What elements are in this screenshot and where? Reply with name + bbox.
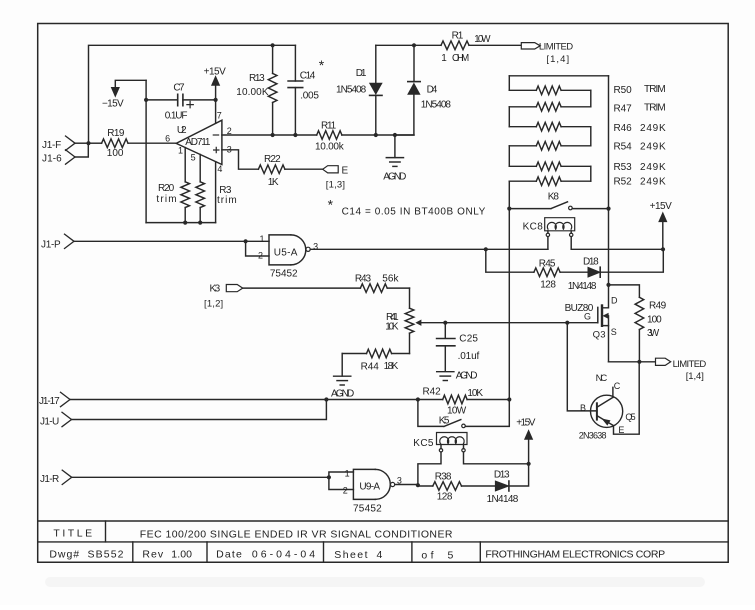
svg-text:D1: D1 [356,68,367,79]
svg-text:10W: 10W [474,34,491,45]
wire J1-F [75,142,89,144]
svg-text:128: 128 [540,280,556,291]
power +15V KC8 [650,201,673,249]
wire -15V column [145,80,147,222]
svg-text:D18: D18 [583,256,599,267]
svg-text:[1,4]: [1,4] [686,371,705,382]
capacitor C25 [437,323,480,372]
node R13 top [271,43,275,47]
svg-text:10.00k: 10.00k [315,142,345,153]
pin 1 label [178,145,183,155]
transistor Q3 BUZ80 [565,285,618,362]
svg-text:LIMITED: LIMITED [673,359,707,370]
node U9 input [327,475,331,479]
svg-text:S: S [611,327,617,337]
wire KC5 left to U9 output [418,452,441,485]
connector J1-F [42,136,75,151]
svg-text:128: 128 [437,492,453,503]
asterisk C14 [319,57,325,73]
resistor R22 [258,154,322,188]
connector J1-17 [39,392,70,407]
resistor R53 [509,162,666,173]
svg-text:U9-A: U9-A [359,481,380,492]
svg-text:249K: 249K [640,162,666,173]
svg-text:5: 5 [448,549,454,561]
node U9 output [416,483,420,487]
svg-text:0.1UF: 0.1UF [165,111,188,122]
wire ladder right brackets [590,90,592,181]
wire trim bottom rail [146,222,216,224]
svg-text:AGND: AGND [331,389,355,400]
svg-text:1N5408: 1N5408 [421,100,452,111]
pin 3 label [227,144,232,154]
svg-text:R45: R45 [539,258,556,269]
resistor R11 [315,121,414,153]
node K5 branch [416,397,420,401]
diode D13 [487,464,529,505]
note C14 text [342,207,486,218]
node Q5 base tap [565,321,569,325]
svg-text:+15V: +15V [204,67,227,78]
svg-text:AD711: AD711 [185,137,211,148]
wire K3 to R43 [243,287,361,289]
svg-text:J1-6: J1-6 [42,153,62,164]
title block divider Dwg [132,542,134,562]
svg-text:KC5: KC5 [413,438,434,449]
svg-text:2N3638: 2N3638 [579,430,607,440]
title text of [421,549,453,561]
title text Rev [142,548,192,560]
svg-text:D13: D13 [494,470,510,481]
connector J1-P [41,234,74,250]
svg-text:1: 1 [260,234,265,244]
title text Date [216,548,315,560]
svg-text:Q5: Q5 [625,412,636,422]
svg-text:C14: C14 [300,71,316,82]
svg-text:4: 4 [377,549,383,561]
resistor R13 [236,45,277,135]
svg-text:.005: .005 [300,90,319,101]
wire ladder top bus [509,75,608,77]
flag E [323,165,349,190]
pin 7 label [217,111,222,121]
svg-text:TITLE: TITLE [53,528,92,540]
wire KC8 right bus [571,248,663,250]
title block divider Date [323,542,325,562]
svg-text:Date: Date [216,548,242,560]
resistor R44 [342,349,409,373]
node R42 right [507,397,511,401]
title text Dwg [49,549,123,561]
wire source row [609,361,656,363]
svg-text:R43: R43 [355,274,372,285]
resistor R52 [509,176,666,187]
flag LIMITED lower [656,358,707,382]
diode D4 [395,45,452,135]
wire pin7 column [215,85,217,123]
wire pin1 column [184,148,186,182]
svg-text:R47: R47 [614,103,633,114]
wire left rail down [508,209,510,400]
node D4 top [412,43,416,47]
svg-text:C7: C7 [173,83,185,94]
svg-text:E: E [342,165,349,176]
wire top rail right [376,44,441,46]
ground AGND C25 [437,371,478,382]
wire J1-17 row [70,399,443,401]
svg-text:+15V: +15V [650,201,673,212]
svg-text:K3: K3 [210,283,221,294]
svg-text:75452: 75452 [270,269,298,280]
wire pin5 column [199,155,201,182]
svg-text:C: C [614,381,621,391]
svg-text:1: 1 [178,145,183,155]
node R49 bottom [637,360,641,364]
svg-text:6: 6 [165,133,170,143]
svg-text:Sheet: Sheet [334,549,368,561]
node U5 input [244,239,248,243]
svg-text:18K: 18K [384,361,399,372]
svg-text:1: 1 [441,53,447,64]
diode D1 [336,45,382,135]
node R13 bottom [271,133,275,137]
svg-text:J1-R: J1-R [40,474,60,485]
svg-text:AGND: AGND [383,172,407,183]
svg-text:4: 4 [217,164,222,174]
svg-text:75452: 75452 [353,504,382,515]
svg-text:1N4148: 1N4148 [568,281,597,292]
resistor R19 [89,128,177,159]
power +15V op-amp [204,67,227,86]
svg-text:U2: U2 [177,125,187,136]
pin 4 label [217,164,222,174]
svg-text:1: 1 [345,469,350,479]
wire J1-U [72,400,327,420]
resistor R43 [355,274,410,293]
svg-text:R42: R42 [423,386,442,397]
svg-text:J1-P: J1-P [41,240,61,251]
svg-text:R1: R1 [452,31,464,42]
svg-text:E: E [618,425,624,435]
svg-text:10K: 10K [467,388,483,399]
svg-text:R54: R54 [614,141,633,152]
svg-text:R44: R44 [361,362,380,373]
pin label U9 3 [397,476,402,486]
wire op-amp output row [222,134,317,136]
svg-text:7: 7 [217,111,222,121]
node R41 wiper junction [443,321,447,325]
svg-text:249K: 249K [640,123,666,134]
svg-text:J1-F: J1-F [42,140,62,151]
flag K3 [204,283,243,309]
pin label U9 2 [343,485,348,495]
svg-text:C14 = 0.05 IN BT400B ONLY: C14 = 0.05 IN BT400B ONLY [342,207,486,218]
wire J1-R [72,476,329,478]
flag LIMITED top [521,42,573,65]
svg-text:K8: K8 [548,192,560,203]
connector J1-6 [42,150,75,165]
svg-text:D4: D4 [427,84,438,95]
resistor R47 [509,103,666,115]
resistor R20 [156,182,189,223]
switch K5 [418,400,509,428]
svg-text:56k: 56k [382,274,399,285]
resistor R54 [509,141,666,152]
title block divider TITLE [105,521,107,542]
svg-text:5: 5 [191,153,196,163]
node J1 input junction [86,141,90,145]
title block line top [38,520,729,522]
pin label U5 1 [260,234,265,244]
svg-text:B: B [580,403,586,413]
node R20 bottom [183,221,187,225]
svg-text:*: * [319,57,325,73]
svg-text:2: 2 [258,250,263,260]
node C7 left [144,98,148,102]
svg-text:FEC 100/200 SINGLE ENDED IR VR: FEC 100/200 SINGLE ENDED IR VR SIGNAL CO… [140,529,453,541]
svg-text:R53: R53 [614,162,633,173]
svg-text:Q3: Q3 [593,330,606,341]
title text company [485,549,665,561]
wire pin3 to R22 [222,150,259,169]
node J1-U junction [324,397,328,401]
svg-text:3W: 3W [647,328,660,339]
node C7 right [214,98,218,102]
svg-text:249K: 249K [640,141,666,152]
svg-text:[1,2]: [1,2] [204,298,224,309]
svg-text:R38: R38 [435,472,452,483]
wire J1-P [74,240,269,242]
title text Sheet [334,549,382,561]
svg-text:trim: trim [217,195,237,206]
title block divider Rev [206,542,208,562]
svg-text:+15V: +15V [516,417,536,428]
svg-text:*: * [328,197,334,213]
potentiometer R41 [385,308,445,333]
svg-text:G: G [584,312,591,322]
svg-text:10K: 10K [385,322,399,333]
pin 2 label [227,126,232,136]
svg-text:Rev: Rev [142,548,163,560]
svg-text:[1,3]: [1,3] [326,180,346,191]
node AGND tap [393,133,397,137]
ground AGND main [383,135,407,183]
wire gate row [445,322,598,324]
title block divider Sheet [411,542,413,562]
op-amp U2 [176,120,222,164]
resistor R1 [441,31,521,65]
connector J1-R [40,470,72,485]
svg-text:1.00: 1.00 [171,548,192,560]
node +15V KC8 junction [661,247,665,251]
node +15V K5 junction [527,462,531,466]
gate U9-A [353,469,395,514]
svg-text:R11: R11 [321,121,337,132]
node K8 left [507,207,511,211]
capacitor C14 [288,45,319,135]
pin 6 label [165,133,170,143]
resistor R45 [486,249,588,290]
svg-text:100: 100 [107,148,124,159]
relay coil KC5 [413,433,467,452]
resistor R46 [509,122,666,134]
wire top-left feedback loop [89,45,296,143]
wire pin4 column [215,162,217,223]
svg-text:1N4148: 1N4148 [487,494,519,505]
node R45 branch [484,247,488,251]
wire KC5 right to +15V [464,452,529,464]
power +15V KC5 [516,417,536,463]
svg-text:R46: R46 [614,123,633,134]
svg-text:TRIM: TRIM [644,103,666,114]
svg-text:R49: R49 [649,301,667,312]
svg-text:2: 2 [343,485,348,495]
svg-text:−15V: −15V [102,99,124,110]
wire R41 to R44 [409,333,411,353]
svg-text:10.00K: 10.00K [236,87,269,98]
resistor R50 [509,84,666,96]
capacitor C7 [146,83,216,122]
resistor R3 [196,182,237,223]
resistor R38 [418,472,495,503]
svg-text:100: 100 [647,315,662,326]
wire U5 pin2 bracket [246,241,269,256]
svg-text:trim: trim [156,194,177,205]
wire U5 output row [310,248,548,250]
svg-text:FROTHINGHAM ELECTRONICS CORP: FROTHINGHAM ELECTRONICS CORP [485,549,665,561]
svg-text:D: D [611,295,618,305]
title block line middle [38,541,729,543]
wire ladder left segments [508,76,510,209]
resistor R49 [609,285,667,362]
title text TITLE [53,528,92,540]
node C14 bottom [293,133,297,137]
svg-text:.01uf: .01uf [458,351,480,362]
svg-text:[1,4]: [1,4] [546,54,569,65]
gate U5-A [269,235,310,280]
svg-text:K5: K5 [439,415,450,426]
node Q3 drain junction [606,283,610,287]
svg-text:NC: NC [596,373,608,384]
svg-text:C25: C25 [459,334,478,345]
transistor Q5 2N3638 [579,362,639,441]
svg-text:R19: R19 [107,128,125,139]
svg-text:J1-U: J1-U [40,417,60,428]
pin label U9 1 [345,469,350,479]
pin label U5 2 [258,250,263,260]
svg-text:OHM: OHM [452,53,470,64]
svg-text:10W: 10W [447,406,467,417]
svg-text:U5-A: U5-A [274,247,298,258]
wire J1-6 [75,143,88,157]
svg-text:R13: R13 [249,73,265,84]
svg-text:SB552: SB552 [88,549,124,561]
svg-text:R52: R52 [614,176,633,187]
pin label U5 3 [313,242,318,252]
pin 5 label [191,153,196,163]
title text description [140,529,453,541]
diode D18 [568,249,664,292]
svg-text:249K: 249K [640,176,666,187]
resistor R42 [423,386,510,416]
svg-text:1K: 1K [268,177,279,188]
ground AGND R44 [331,354,355,400]
svg-text:LIMITED: LIMITED [539,42,574,53]
svg-text:Dwg#: Dwg# [49,549,79,561]
svg-text:1N5408: 1N5408 [336,85,367,96]
wire R43 to R41 [409,288,411,308]
wire U9 input bracket [329,472,354,490]
svg-text:R22: R22 [264,154,281,165]
svg-text:TRIM: TRIM [644,84,666,95]
svg-text:J1-17: J1-17 [39,396,60,407]
note asterisk [328,197,334,213]
connector J1-U [40,412,72,427]
switch K8 [509,192,608,210]
wire ladder right rail [608,76,610,285]
node K8 right [606,207,610,211]
svg-text:KC8: KC8 [523,221,544,232]
power -15V [102,80,146,109]
relay coil KC8 [523,218,575,250]
node R3 bottom [198,221,202,225]
node D1 bottom [374,133,378,137]
svg-text:AGND: AGND [456,371,478,382]
wire U9 output [395,485,418,487]
svg-text:R20: R20 [158,183,175,194]
svg-text:R50: R50 [614,85,633,96]
wire Q5 base riser [567,323,597,411]
title block divider of [479,542,481,562]
